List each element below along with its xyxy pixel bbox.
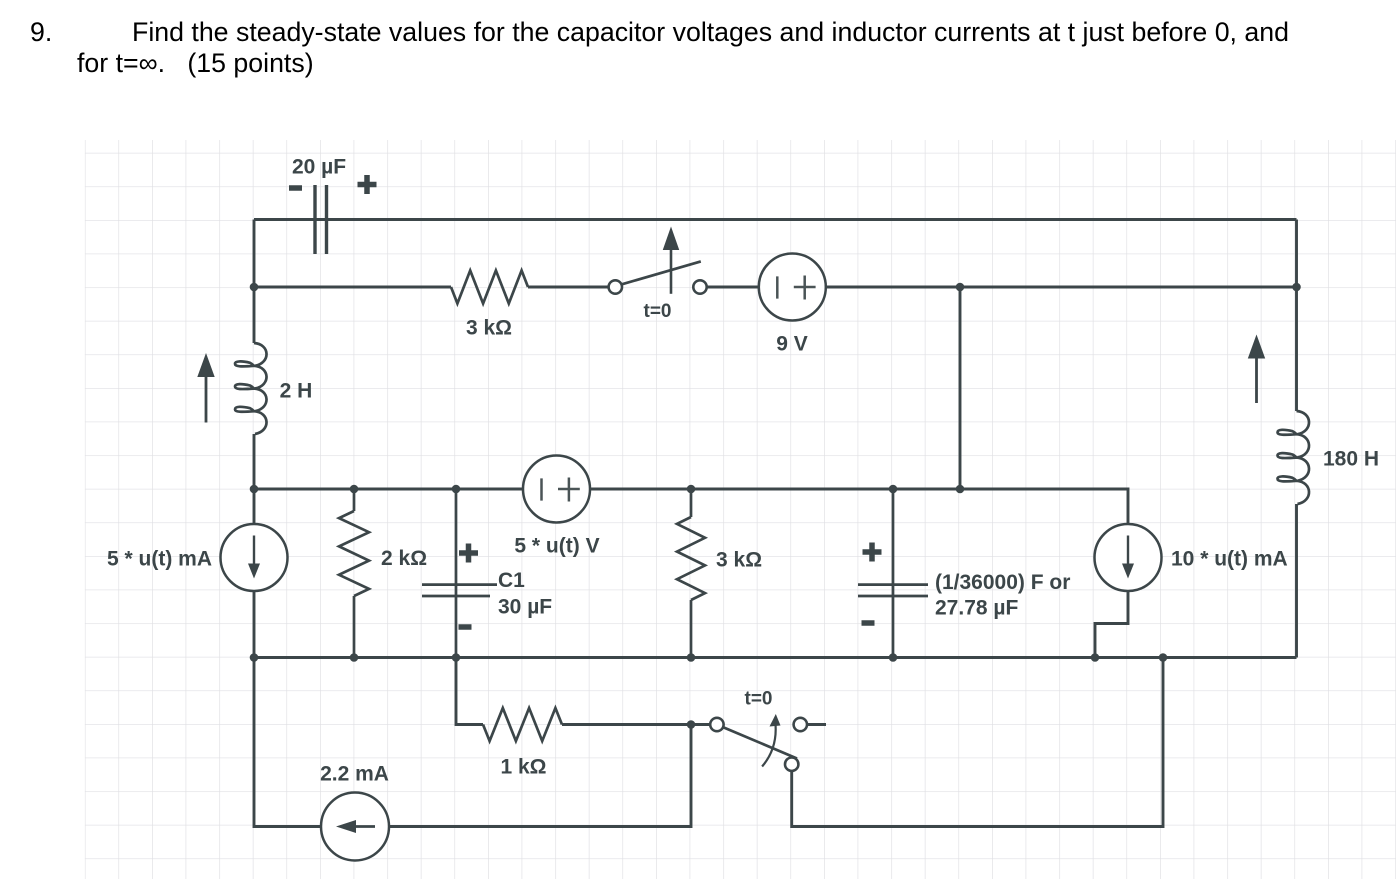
switch bottom arc arrow	[762, 722, 776, 767]
capacitor 20uF	[315, 185, 327, 254]
node bot-2k	[350, 653, 359, 662]
wire riser node to row2	[959, 287, 962, 489]
wire source I10 to bottom jog	[1095, 591, 1128, 658]
switch top circles	[609, 280, 622, 293]
inductor 180H	[1278, 411, 1310, 504]
node bot-3k	[687, 653, 696, 662]
arrow current dir left	[205, 375, 208, 423]
node row2-right	[1292, 283, 1301, 292]
voltage source 5u(t)V	[523, 456, 590, 523]
resistor 1k	[483, 708, 562, 741]
wire bottom rail	[254, 656, 1297, 659]
voltage source 9V	[759, 254, 826, 321]
svg-text:10 * u(t) mA: 10 * u(t) mA	[1171, 548, 1288, 571]
svg-text:30 µF: 30 µF	[498, 596, 552, 619]
wire bottom-right loop	[792, 658, 1163, 827]
node bot-C2	[889, 653, 898, 662]
minus sign 20uF	[289, 185, 302, 191]
node row2-riser	[956, 283, 965, 292]
node mid-left	[250, 485, 259, 494]
node mid-C1	[452, 485, 461, 494]
plus sign C1	[459, 544, 478, 563]
svg-text:3 kΩ: 3 kΩ	[716, 549, 762, 572]
node mid-C2	[889, 485, 898, 494]
minus sign C1	[459, 624, 472, 630]
svg-text:5 * u(t) V: 5 * u(t) V	[514, 535, 599, 558]
resistor 3k mid	[690, 489, 693, 658]
current source 2.2mA	[321, 793, 389, 861]
svg-text:2.2 mA: 2.2 mA	[320, 763, 389, 786]
svg-text:9 V: 9 V	[776, 333, 808, 356]
node row2-left	[250, 283, 259, 292]
svg-text:5 * u(t) mA: 5 * u(t) mA	[107, 548, 212, 571]
svg-text:t=0: t=0	[644, 301, 672, 322]
switch top blade	[622, 261, 701, 284]
current source 10u(t)mA	[1095, 524, 1162, 591]
wire right rail	[1295, 220, 1298, 658]
switch bottom blade	[723, 727, 797, 758]
node bot-right-branch	[1159, 653, 1168, 662]
wire bottom-left loop	[389, 725, 691, 827]
wire 1k row	[456, 658, 826, 725]
node 1k-switch	[687, 720, 696, 729]
plus sign 20uF	[358, 175, 377, 194]
resistor 3k top	[451, 271, 528, 304]
node bot-left	[250, 653, 259, 662]
node bot-C1	[452, 653, 461, 662]
svg-text:3 kΩ: 3 kΩ	[466, 317, 512, 340]
svg-text:180 H: 180 H	[1323, 448, 1379, 471]
inductor 2H	[235, 343, 267, 434]
wire left rail	[254, 220, 321, 827]
minus sign C2	[862, 620, 875, 626]
wire top rail	[254, 218, 1297, 221]
svg-text:2 H: 2 H	[280, 380, 313, 403]
capacitor C2	[892, 489, 895, 658]
node mid-2k	[350, 485, 359, 494]
switch top arrow	[670, 248, 673, 294]
svg-text:27.78 µF: 27.78 µF	[935, 597, 1018, 620]
node mid-3k	[687, 485, 696, 494]
wire middle rail	[254, 489, 1128, 524]
node mid-riser	[956, 485, 965, 494]
capacitor C1	[455, 489, 458, 658]
arrow current dir right	[1255, 357, 1258, 404]
svg-text:C1: C1	[498, 569, 525, 592]
svg-text:1 kΩ: 1 kΩ	[500, 756, 546, 779]
node bot-jog	[1091, 653, 1100, 662]
switch bottom circles	[710, 718, 723, 731]
svg-text:20 µF: 20 µF	[292, 156, 346, 179]
plus sign C2	[863, 543, 882, 562]
resistor 2k	[353, 489, 356, 658]
svg-text:t=0: t=0	[745, 689, 773, 710]
svg-text:2 kΩ: 2 kΩ	[381, 547, 427, 570]
current source 5u(t)mA	[221, 524, 288, 591]
svg-text:(1/36000) F or: (1/36000) F or	[935, 571, 1070, 594]
wire row2	[254, 286, 1297, 289]
